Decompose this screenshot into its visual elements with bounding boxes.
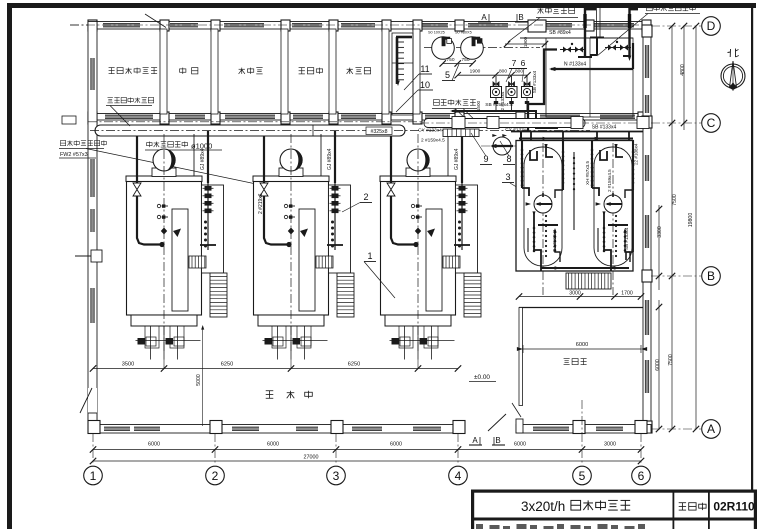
- svg-text:3300: 3300: [657, 226, 663, 238]
- wall left outline: [88, 22, 97, 433]
- axis extension line 6: [640, 433, 642, 465]
- stairwell pipe arrow: [396, 81, 400, 86]
- svg-text:22 #108x4: 22 #108x4: [634, 143, 639, 165]
- window bottom wall 4: [296, 427, 318, 430]
- window top wall 4: [292, 24, 322, 27]
- pipe box left wall: [91, 250, 102, 262]
- svg-text:6: 6: [638, 469, 645, 483]
- window left wall 3: [91, 209, 94, 232]
- window bottom wall 3: [232, 427, 259, 430]
- pipe stub left C: [62, 116, 76, 124]
- pipe sbend right: [521, 131, 533, 150]
- platform divider: [589, 38, 591, 117]
- column C wall 2: [160, 112, 169, 124]
- axis extension line 3: [335, 433, 337, 465]
- window right wall 6: [645, 360, 648, 393]
- axis A extension: [651, 428, 701, 430]
- window C wall 7: [540, 115, 580, 118]
- stairwell pipe horizontal: [396, 36, 412, 39]
- svg-text:SB #89x4: SB #89x4: [549, 30, 571, 36]
- label room hua-yan-shi: [349, 68, 351, 74]
- svg-text:4800: 4800: [680, 64, 686, 76]
- svg-text:5: 5: [445, 70, 450, 80]
- svg-text:02R110: 02R110: [713, 500, 755, 514]
- axis D extension: [651, 25, 701, 27]
- fan 2 motor pipe: [472, 37, 476, 47]
- svg-text:11: 11: [420, 64, 429, 74]
- axis B extension: [651, 275, 701, 277]
- svg-text:6000: 6000: [390, 442, 402, 448]
- window C wall 6: [425, 115, 450, 118]
- window top wall 7: [468, 24, 508, 27]
- control room door leaf: [512, 403, 521, 417]
- feed pipe thick: [528, 50, 557, 132]
- steam header centerline: [90, 130, 590, 132]
- column C wall 5: [329, 112, 338, 124]
- control room top wall: [519, 307, 643, 309]
- deaerator top bus pipe: [519, 137, 633, 139]
- control room dim 6000 line: [523, 348, 641, 350]
- svg-text:5000: 5000: [196, 374, 202, 386]
- label underline blowdown: [59, 148, 104, 150]
- column C wall 9: [516, 112, 525, 124]
- wall bottom outline east: [516, 425, 651, 434]
- svg-text:SB #133x4: SB #133x4: [624, 227, 629, 250]
- axis D stub left: [70, 24, 88, 26]
- pipe coupling 1: [452, 117, 465, 129]
- svg-text:4: 4: [455, 469, 462, 483]
- deaerator bottom drops: [540, 268, 542, 271]
- window bottom wall 2: [134, 427, 160, 430]
- column C wall 7: [413, 112, 422, 124]
- column right wall D: [642, 25, 652, 37]
- pipe along C right: [511, 131, 643, 133]
- partition wall room 4: [329, 29, 336, 114]
- valve cluster 1: [560, 49, 585, 51]
- svg-text:3000: 3000: [569, 291, 581, 297]
- axis circle B: [702, 267, 721, 286]
- svg-text:3x20t/h: 3x20t/h: [521, 499, 565, 514]
- leader steam main: [110, 106, 130, 127]
- axis extension line 4: [457, 433, 459, 465]
- riser pipe B: [628, 8, 630, 56]
- title block divider 1: [673, 490, 675, 521]
- axis circle 6: [632, 466, 651, 485]
- axis circle 4: [449, 466, 468, 485]
- svg-text:N #133x4: N #133x4: [564, 62, 586, 68]
- column bottom wall 2: [210, 421, 222, 434]
- window bottom wall 5: [352, 427, 382, 430]
- svg-text:2: 2: [363, 192, 368, 202]
- wall C-axis outline: [88, 114, 651, 121]
- wall right outline: [643, 26, 651, 433]
- svg-text:3000: 3000: [604, 442, 616, 448]
- svg-text:GJ #89x4: GJ #89x4: [200, 148, 206, 170]
- column top wall 9: [585, 20, 594, 31]
- svg-text:S0 #80X5: S0 #80X5: [455, 31, 472, 35]
- door left wall gap: [88, 388, 97, 426]
- column top wall 4: [281, 20, 290, 31]
- deaerator tank 1: [521, 140, 565, 295]
- column top wall 3: [211, 20, 220, 31]
- column bottom wall 1: [88, 421, 100, 434]
- svg-text:27000: 27000: [304, 455, 319, 461]
- window top wall 5: [341, 24, 375, 27]
- label underline steam main: [106, 105, 152, 107]
- svg-text:1900: 1900: [470, 69, 481, 75]
- partition wall room 1: [160, 29, 167, 114]
- svg-text:SB #159x4.5: SB #159x4.5: [485, 102, 513, 108]
- dim row 6000s: [93, 449, 641, 451]
- column right wall A: [642, 421, 652, 433]
- window C wall 5: [341, 115, 376, 118]
- window C wall 8: [600, 115, 635, 118]
- title block right border: [754, 490, 757, 529]
- column top wall 2: [160, 20, 169, 31]
- svg-text:S0 10X25: S0 10X25: [428, 31, 445, 35]
- pump discharge pipe: [452, 111, 558, 128]
- svg-text:FW2 #57x3: FW2 #57x3: [60, 152, 88, 158]
- svg-text:A: A: [472, 436, 478, 445]
- axis C extension: [651, 122, 701, 124]
- window right wall 1: [645, 45, 648, 78]
- label jie-zi-lai-shui (tap water): [540, 8, 542, 14]
- column top wall 7: [413, 20, 422, 31]
- svg-text:1: 1: [367, 251, 372, 261]
- platform rect: [546, 38, 633, 117]
- window top wall 2: [170, 24, 198, 27]
- axis C line through wall: [88, 121, 456, 123]
- axis extension line 1: [92, 433, 94, 465]
- feedwater pipe cylinder: [424, 119, 585, 128]
- drawing frame left border: [7, 3, 12, 529]
- svg-text:2 #219x6: 2 #219x6: [258, 193, 264, 214]
- column C wall 3: [211, 112, 220, 124]
- dim vertical 5000 line: [202, 327, 204, 426]
- window top wall 1: [103, 24, 140, 27]
- wall top outline: [88, 22, 651, 30]
- axis circle 3: [327, 466, 346, 485]
- svg-text:XH #57x3.5: XH #57x3.5: [585, 161, 590, 185]
- svg-text:19800: 19800: [688, 213, 694, 228]
- hatch row duct: [443, 129, 479, 137]
- dim col inner 3300: [658, 205, 660, 290]
- leader top left diag: [145, 14, 166, 28]
- svg-text:6000: 6000: [514, 442, 526, 448]
- window right wall 5: [645, 300, 648, 335]
- svg-text:7500: 7500: [668, 354, 674, 366]
- deaerator right bus long: [632, 140, 634, 252]
- column bottom wall 3: [331, 421, 343, 434]
- window bottom wall 7: [533, 427, 569, 430]
- svg-text:7: 7: [512, 58, 517, 68]
- partition wall room 5: [382, 29, 389, 114]
- label jie-wai-wang (condensate): [647, 5, 653, 11]
- svg-text:3: 3: [505, 172, 510, 182]
- svg-text:1: 1: [90, 469, 97, 483]
- title block mid border: [471, 518, 757, 521]
- window C wall 3: [225, 115, 275, 118]
- leader blowdown b: [463, 109, 482, 128]
- pipe SB89: [520, 37, 633, 39]
- svg-text:GJ #108x4: GJ #108x4: [552, 229, 557, 252]
- window C wall 4: [293, 115, 323, 118]
- svg-text:6000: 6000: [148, 442, 160, 448]
- partition wall room 6: [413, 29, 420, 114]
- door bottom post: [516, 419, 523, 433]
- partition wall room 2: [211, 29, 218, 114]
- leader tap water: [508, 18, 540, 43]
- svg-text:B: B: [707, 269, 715, 283]
- dim 750 750: [443, 63, 473, 65]
- door left wall leaf: [80, 388, 92, 413]
- window bottom wall 8: [596, 427, 623, 430]
- steam header pipe: [95, 125, 405, 136]
- window top wall 8: [528, 24, 572, 27]
- north compass label: [729, 49, 731, 57]
- svg-text:2 #159x4.5: 2 #159x4.5: [607, 169, 612, 192]
- svg-text:1500: 1500: [476, 100, 481, 111]
- svg-text:6000: 6000: [267, 442, 279, 448]
- partition wall room 3: [281, 29, 288, 114]
- dim 1900 vertical: [505, 43, 547, 45]
- window right wall 4: [645, 215, 648, 248]
- dim col 4800: [683, 26, 685, 130]
- control room dim arrows: [517, 347, 523, 351]
- pump 2: [506, 87, 517, 98]
- control room left wall: [519, 308, 523, 406]
- valve cluster 2: [605, 47, 631, 49]
- svg-text:GJ #89x4: GJ #89x4: [454, 148, 460, 170]
- manifold dash line: [424, 47, 540, 49]
- svg-text:GJ #89x4: GJ #89x4: [327, 148, 333, 170]
- dim line boilers: [93, 368, 458, 370]
- axis extension line 5: [581, 433, 583, 465]
- boiler unit 3: [380, 131, 481, 369]
- window right wall 3: [645, 155, 648, 181]
- pipe coupling 2: [487, 117, 499, 129]
- column bottom wall 4: [453, 421, 465, 434]
- dim row 27000: [93, 460, 641, 462]
- leader blowdown to boiler: [86, 149, 261, 186]
- svg-text:750: 750: [461, 57, 469, 63]
- dim col 19800: [695, 26, 697, 429]
- leader condensate: [597, 14, 648, 57]
- svg-text:A: A: [707, 422, 715, 436]
- door bottom wall leaf: [488, 414, 506, 431]
- circle pump C: [481, 145, 524, 147]
- svg-text:2 #159x4.5: 2 #159x4.5: [421, 138, 445, 144]
- svg-text:B: B: [518, 13, 523, 22]
- column C wall 10: [638, 112, 647, 124]
- svg-text:#325x8: #325x8: [370, 129, 387, 135]
- axis circle A: [702, 420, 721, 439]
- window left wall 1: [91, 58, 94, 90]
- title label tu-ji-hao: [679, 502, 686, 504]
- deaerator tank 2: [591, 140, 635, 295]
- label room yu-ce: [180, 69, 186, 72]
- svg-text:A: A: [481, 13, 487, 22]
- pipe coupling right wall: [637, 117, 649, 129]
- window C wall 1: [105, 115, 153, 118]
- axis circle D: [702, 17, 721, 36]
- column bottom wall 6: [635, 421, 647, 434]
- axis extension line 2: [214, 433, 216, 465]
- dim col 7500s: [671, 26, 673, 429]
- drawing frame top border: [7, 3, 756, 8]
- column top wall wide: [528, 20, 546, 32]
- column right wall C: [642, 116, 652, 128]
- svg-text:6250: 6250: [221, 362, 233, 368]
- window left wall 4: [91, 288, 94, 323]
- axis circle 1: [84, 466, 103, 485]
- window top wall 3: [224, 24, 264, 27]
- pipe stub left wall: [75, 255, 91, 257]
- svg-text:6250: 6250: [348, 362, 360, 368]
- svg-text:C: C: [707, 116, 716, 130]
- svg-text:7500: 7500: [672, 194, 678, 206]
- svg-text:2: 2: [212, 469, 219, 483]
- tick at boiler2 plinth: [258, 178, 261, 186]
- wall stubs top right: [583, 14, 586, 28]
- feedwater centerline: [420, 122, 643, 124]
- axis D line through wall: [70, 24, 651, 26]
- axis circle 5: [573, 466, 592, 485]
- north compass needle: [729, 61, 736, 88]
- fan 2 circle: [461, 37, 484, 60]
- svg-text:±0.00: ±0.00: [474, 374, 490, 381]
- pump 3: [522, 87, 533, 98]
- dim 3000 1700: [519, 296, 641, 298]
- axis circle 2: [206, 466, 225, 485]
- title block left border: [471, 490, 474, 529]
- column top wall 10: [642, 20, 651, 31]
- svg-text:B: B: [495, 436, 500, 445]
- column C wall 1: [88, 112, 97, 124]
- svg-text:D: D: [707, 19, 716, 33]
- label room wei-xiu-jian: [241, 68, 243, 74]
- column bottom wall 5: [573, 421, 585, 434]
- column top wall 8: [455, 20, 464, 31]
- window right wall 2: [645, 95, 648, 113]
- svg-text:800: 800: [515, 69, 523, 75]
- column top wall 6: [382, 20, 391, 31]
- steam header label box: [366, 127, 392, 135]
- deaerator feed drops: [530, 132, 532, 141]
- label yan-cong (chimney outlet): [147, 143, 153, 146]
- title block top border: [471, 490, 757, 493]
- window top wall 6: [420, 24, 448, 27]
- window left wall 2: [91, 159, 94, 197]
- label zheng-qi-mu-guan (steam main): [108, 97, 113, 99]
- window top wall 9: [594, 24, 634, 27]
- axis circle C: [702, 114, 721, 133]
- dim col inner 6000: [658, 300, 660, 429]
- label jie-zhi-pai-wu (blowdown pool): [60, 140, 65, 145]
- deaerator bottom main: [541, 267, 629, 269]
- stairwell pipe vertical: [396, 37, 399, 84]
- title partial row marks: [476, 524, 483, 529]
- svg-text:1900: 1900: [523, 36, 528, 47]
- label guo-lu-jian (boiler hall): [266, 390, 274, 392]
- fan 1 motor pipe: [442, 37, 446, 47]
- drawing frame right edge line: [751, 8, 753, 490]
- stairwell inner wall: [392, 33, 413, 115]
- boiler unit 1: [126, 131, 227, 369]
- svg-text:6000: 6000: [655, 359, 661, 371]
- column C wall 6: [382, 112, 391, 124]
- svg-text:10: 10: [420, 80, 430, 90]
- svg-text:5: 5: [579, 469, 586, 483]
- column right wall B: [642, 270, 652, 282]
- column top wall 5: [329, 20, 338, 31]
- deaerator mid pipe: [573, 152, 575, 230]
- window bottom wall 6: [413, 427, 441, 430]
- dim 1900-800-800: [458, 74, 528, 76]
- label kong-zhi-shi (control room): [564, 358, 570, 360]
- label room tian-ran-qi-ji-liang-jian: [109, 67, 115, 69]
- leader blowdown a: [455, 109, 474, 128]
- svg-text:6: 6: [521, 58, 526, 68]
- column top wall 1: [88, 20, 97, 31]
- window C wall 2: [175, 115, 205, 118]
- ladder below deaerator: [566, 273, 611, 289]
- stairwell mid line: [392, 62, 413, 64]
- title block divider 2: [708, 490, 710, 521]
- column C wall 8: [455, 112, 464, 124]
- pump 1: [491, 87, 502, 98]
- riser pipe T: [596, 8, 598, 37]
- svg-text:3: 3: [333, 469, 340, 483]
- riser pipe A: [584, 8, 586, 57]
- door left wall post: [88, 413, 97, 426]
- north compass circles: [721, 64, 745, 88]
- label underline chimney: [145, 149, 222, 151]
- svg-text:SB #133x4: SB #133x4: [592, 125, 617, 131]
- wall bottom outline west: [88, 425, 465, 434]
- pipe coupling 3: [571, 117, 583, 129]
- title text ping-mian-bu-zhi-tu: [571, 500, 581, 510]
- svg-text:CY #133x4: CY #133x4: [418, 128, 442, 134]
- window bottom wall 1: [104, 427, 130, 430]
- pipe N133: [551, 68, 633, 70]
- label room zhi-ban-shi: [299, 67, 305, 69]
- fan 1 circle: [432, 37, 455, 60]
- deaerator room outline: [516, 141, 633, 272]
- svg-text:1700: 1700: [621, 291, 633, 297]
- svg-text:750: 750: [446, 57, 454, 63]
- svg-text:6000: 6000: [576, 342, 588, 348]
- svg-text:800: 800: [499, 69, 507, 75]
- label jie-lian-xu (blowdown pipe): [434, 100, 440, 106]
- axis5 dashdot up: [581, 400, 583, 433]
- column C wall 4: [281, 112, 290, 124]
- svg-text:3500: 3500: [122, 362, 134, 368]
- boiler unit 2: [253, 131, 354, 369]
